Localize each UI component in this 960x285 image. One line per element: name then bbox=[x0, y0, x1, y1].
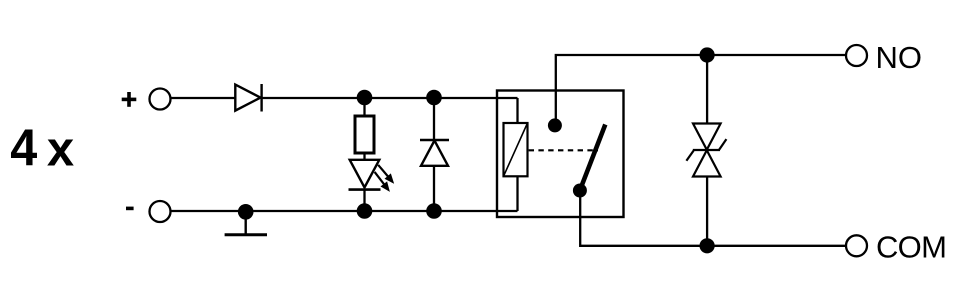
LED light arrows bbox=[375, 165, 394, 191]
junction dot ground bbox=[238, 204, 254, 220]
label plus bbox=[122, 92, 137, 107]
junction dot bottom of flyback diode branch bbox=[426, 203, 442, 219]
dashed actuator link bbox=[529, 149, 598, 151]
junction dot top of flyback diode branch bbox=[426, 90, 442, 106]
diode D1 bbox=[235, 84, 261, 112]
wire D1 to relay coil (top rail) bbox=[262, 97, 518, 99]
svg-text:NO: NO bbox=[876, 40, 923, 75]
terminal NO bbox=[846, 45, 867, 66]
svg-text:COM: COM bbox=[876, 230, 946, 265]
relay switch blade bbox=[581, 125, 605, 188]
wire plus terminal to diode D1 bbox=[171, 97, 236, 99]
LED D2 bbox=[349, 160, 381, 190]
wire rail to resistor R1 bbox=[363, 98, 365, 116]
wire rail to flyback diode D3 bbox=[433, 98, 435, 140]
terminal minus bbox=[150, 201, 171, 222]
label 4x bbox=[10, 120, 74, 178]
junction dot bottom of resistor branch bbox=[357, 203, 373, 219]
relay coil feed top bbox=[516, 98, 518, 123]
wire moving contact to COM rail bbox=[580, 191, 845, 246]
wire resistor to LED bbox=[363, 153, 365, 160]
svg-text:4: 4 bbox=[10, 120, 37, 178]
ground bbox=[225, 212, 267, 235]
svg-text:x: x bbox=[47, 122, 74, 176]
relay coil feed bottom bbox=[516, 176, 518, 211]
junction dot COM rail / TVS bbox=[700, 238, 715, 253]
relay fixed contact dot bbox=[548, 118, 562, 132]
junction dot NO rail / TVS bbox=[700, 47, 715, 62]
resistor R1 bbox=[355, 116, 374, 153]
terminal COM bbox=[846, 235, 867, 256]
TVS suppressor Z1 bbox=[686, 124, 726, 177]
wire flyback diode to bottom rail bbox=[433, 166, 435, 211]
wire LED to bottom rail bbox=[363, 190, 365, 211]
wire fixed contact to NO rail bbox=[556, 55, 846, 125]
wire TVS to COM rail bbox=[706, 177, 708, 246]
wire minus terminal to relay coil (bottom rail) bbox=[171, 210, 518, 212]
relay moving contact dot bbox=[573, 184, 587, 198]
junction dot top of resistor branch bbox=[357, 90, 373, 106]
flyback diode D3 bbox=[420, 140, 449, 166]
label minus bbox=[126, 207, 134, 211]
wire NO rail to TVS bbox=[706, 55, 708, 124]
relay K1 box bbox=[497, 91, 624, 218]
relay coil bbox=[504, 123, 528, 176]
terminal plus bbox=[150, 89, 171, 110]
